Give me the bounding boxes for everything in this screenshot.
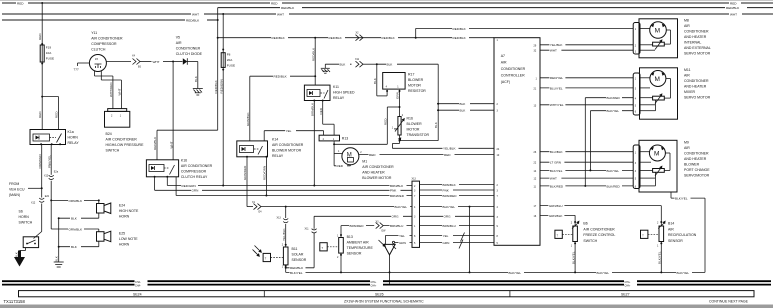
svg-text:20A: 20A	[227, 58, 233, 62]
svg-text:PNK: PNK	[390, 189, 397, 193]
horn E24 high note horn	[97, 203, 140, 219]
wire bus RED/BLK right	[218, 5, 773, 10]
svg-text:A7: A7	[501, 54, 505, 58]
svg-text:BLK/YEL: BLK/YEL	[677, 271, 690, 275]
svg-text:BLK/YEL: BLK/YEL	[550, 169, 563, 173]
svg-text:BLK: BLK	[387, 63, 394, 67]
svg-text:WHT: WHT	[550, 49, 557, 53]
svg-text:K11: K11	[333, 85, 339, 89]
svg-text:ZX1W-W-5N SYSTEM FUNCTIONAL SC: ZX1W-W-5N SYSTEM FUNCTIONAL SCHEMATIC	[344, 300, 424, 304]
svg-text:X11: X11	[305, 228, 310, 231]
clutch Y11 air conditioner compressor clutch	[74, 31, 123, 72]
svg-text:M: M	[654, 150, 659, 157]
svg-text:X13: X13	[277, 217, 282, 220]
wire BRN/RED from B13 through X3	[341, 221, 412, 233]
connector X13 sensor drop	[277, 207, 289, 247]
svg-text:SWITCH: SWITCH	[19, 221, 33, 225]
svg-text:CONDITIONER: CONDITIONER	[501, 67, 526, 71]
wire BLK branch down to R17	[373, 64, 388, 96]
svg-text:BRN/RED: BRN/RED	[390, 194, 405, 198]
svg-text:E2a: E2a	[54, 171, 59, 174]
svg-text:E24: E24	[119, 204, 125, 208]
svg-text:BLK/YEL: BLK/YEL	[597, 271, 610, 275]
svg-text:HORN: HORN	[19, 215, 30, 219]
svg-text:SWITCH: SWITCH	[106, 149, 120, 153]
svg-text:RED: RED	[444, 153, 451, 157]
wire horn feed to low note horn	[51, 227, 99, 232]
A7 right pins with wires to servos	[534, 43, 662, 218]
svg-text:YEL/BLK: YEL/BLK	[282, 228, 286, 241]
svg-text:FREEZE CONTROL: FREEZE CONTROL	[583, 233, 615, 237]
svg-text:K16: K16	[181, 159, 187, 163]
svg-text:BLK/RED: BLK/RED	[550, 184, 564, 188]
wire YEL/BLK from R16 to A7	[392, 144, 494, 151]
svg-text:HIGH NOTE: HIGH NOTE	[119, 209, 139, 213]
svg-text:WHT: WHT	[550, 177, 557, 181]
svg-text:B24: B24	[106, 132, 112, 136]
svg-text:VEH ECU: VEH ECU	[9, 188, 25, 192]
svg-text:BRN/BLU: BRN/BLU	[443, 224, 456, 228]
svg-text:F19: F19	[46, 46, 52, 50]
svg-text:PORT CHANGE: PORT CHANGE	[684, 168, 710, 172]
wire K16 to X13 pin7 BRN/RED line	[176, 177, 412, 198]
svg-text:ORN/BLK: ORN/BLK	[69, 227, 84, 231]
svg-text:AIR: AIR	[176, 41, 182, 45]
sensor B11 solar sensor	[253, 245, 307, 269]
sensor B14 air recirculation sensor	[641, 206, 697, 273]
svg-text:BRN/BLU: BRN/BLU	[390, 224, 403, 228]
svg-text:BLOWER: BLOWER	[407, 122, 423, 126]
wire RED/ORN from K14 down	[263, 157, 267, 196]
svg-text:GRN/BLU: GRN/BLU	[549, 204, 563, 208]
svg-text:ORN/BLK: ORN/BLK	[69, 199, 84, 203]
svg-text:SENSOR: SENSOR	[292, 258, 307, 262]
svg-text:BLU/BLK: BLU/BLK	[550, 150, 564, 154]
svg-text:M9: M9	[684, 140, 689, 144]
svg-text:M11: M11	[684, 68, 691, 72]
svg-text:BLK/YEL: BLK/YEL	[675, 197, 688, 201]
svg-text:MIXER: MIXER	[684, 90, 696, 94]
svg-text:M: M	[655, 27, 660, 34]
svg-text:Y11: Y11	[91, 31, 97, 35]
svg-text:CHA-: CHA-	[625, 285, 631, 288]
svg-text:HORN: HORN	[119, 215, 130, 219]
svg-text:WHT: WHT	[153, 60, 160, 64]
wire ORN/RED from K1a to X12	[38, 145, 43, 190]
svg-text:(ACF): (ACF)	[501, 80, 510, 84]
svg-text:ZX: ZX	[95, 58, 98, 61]
wire RED/BLK from jog to A7 top	[218, 36, 494, 41]
ground bus CHA thick lines	[2, 279, 771, 288]
svg-text:AIR: AIR	[684, 73, 690, 77]
ground arrow below S6	[14, 251, 25, 267]
svg-text:ORG: ORG	[444, 215, 452, 219]
svg-text:HORN: HORN	[68, 136, 79, 140]
svg-text:RED/YEL: RED/YEL	[550, 76, 564, 80]
svg-text:(MAIN): (MAIN)	[9, 193, 20, 197]
svg-text:AIR: AIR	[684, 146, 690, 150]
wire vertical RED/BLK jog from bus	[153, 8, 219, 160]
svg-text:BLK: BLK	[460, 109, 467, 113]
svg-text:X11: X11	[355, 58, 360, 61]
svg-text:FUSE: FUSE	[46, 57, 54, 61]
svg-text:HIGH/LOW PRESSURE: HIGH/LOW PRESSURE	[106, 143, 145, 147]
svg-text:M8: M8	[684, 19, 689, 23]
wire BLK ground line to R17 area	[325, 62, 351, 67]
wire YEL from K14 to R13	[264, 129, 323, 141]
svg-text:RED/ORN: RED/ORN	[263, 166, 267, 180]
svg-text:WHT: WHT	[277, 12, 284, 16]
svg-text:BRN/BLK: BRN/BLK	[443, 183, 457, 187]
svg-text:BLK: BLK	[373, 77, 377, 84]
svg-text:CLUTCH: CLUTCH	[91, 48, 106, 52]
wire K16 to X13 pin3 PNK line	[155, 177, 412, 193]
wire GRN/RED from K14 down to X1	[243, 157, 253, 207]
svg-text:COMPRESSOR: COMPRESSOR	[91, 42, 117, 46]
svg-text:YEL/BLK: YEL/BLK	[550, 43, 563, 47]
svg-text:GRN: GRN	[192, 189, 199, 193]
svg-text:CONTROLLER: CONTROLLER	[501, 74, 525, 78]
svg-text:CHA-: CHA-	[135, 285, 141, 288]
svg-text:LOW NOTE: LOW NOTE	[119, 237, 138, 241]
svg-text:BLK: BLK	[71, 217, 78, 221]
svg-text:AIR CONDITIONER: AIR CONDITIONER	[272, 143, 304, 147]
svg-text:BLK/YEL: BLK/YEL	[290, 271, 303, 275]
svg-text:AND HEATER: AND HEATER	[684, 157, 707, 161]
svg-text:SERVOMOTOR: SERVOMOTOR	[684, 173, 710, 177]
svg-text:RELAY: RELAY	[333, 96, 345, 100]
footer gray strip	[0, 305, 773, 308]
svg-text:AIR: AIR	[501, 61, 507, 65]
text FROM VEH ECU	[9, 182, 42, 197]
A7 left pin numbers	[497, 39, 500, 245]
svg-text:777: 777	[74, 68, 79, 72]
wire R17 pin1 to R16 and RED feed to R13	[334, 90, 400, 145]
controller A7 air conditioner controller box	[494, 38, 540, 246]
svg-text:YEL: YEL	[399, 234, 405, 238]
svg-text:GRN: GRN	[443, 241, 450, 245]
svg-text:RED/BLK: RED/BLK	[281, 6, 295, 10]
svg-text:BLK: BLK	[55, 255, 59, 262]
resistor R13	[319, 135, 350, 168]
svg-text:BLK/YEL: BLK/YEL	[395, 205, 408, 209]
svg-text:SERVO MOTOR: SERVO MOTOR	[684, 95, 711, 99]
top page edge	[0, 0, 773, 2]
svg-text:CONDITIONER: CONDITIONER	[684, 79, 709, 83]
svg-text:RELAY: RELAY	[272, 154, 284, 158]
svg-text:M1: M1	[362, 160, 367, 164]
svg-text:BRN/BLK: BRN/BLK	[311, 102, 315, 116]
svg-text:RED/BLK: RED/BLK	[726, 6, 740, 10]
wire RED from K11 to R13	[319, 101, 334, 136]
svg-text:10A: 10A	[46, 51, 52, 55]
footer section bar	[19, 291, 755, 297]
wire horn feed to high note horn	[51, 198, 100, 203]
wires X13 to A7 left pins	[420, 182, 495, 248]
relay K1a horn relay	[30, 130, 79, 146]
svg-text:BLK/RED: BLK/RED	[607, 184, 621, 188]
horn E25 low note horn	[97, 231, 139, 246]
svg-text:FUSE: FUSE	[227, 64, 235, 68]
svg-text:RELAY: RELAY	[68, 141, 80, 145]
svg-text:ORN/RED: ORN/RED	[38, 153, 42, 168]
wire branch up to servo M8 feed	[416, 26, 634, 38]
svg-text:WHT: WHT	[169, 141, 173, 148]
svg-text:RED/BLK: RED/BLK	[382, 36, 396, 40]
svg-text:SENSOR: SENSOR	[347, 252, 362, 256]
connector X2 on RED/BLK wire	[356, 32, 364, 41]
relay K11 high speed relay	[304, 85, 355, 102]
svg-text:AND HEATER: AND HEATER	[684, 84, 707, 88]
svg-text:RED/BLK: RED/BLK	[186, 18, 200, 22]
svg-text:HORN: HORN	[119, 243, 130, 247]
svg-text:X13: X13	[412, 178, 417, 181]
svg-text:GRN/BLK: GRN/BLK	[246, 111, 250, 126]
wire BLK corner down to A7 BLK pins	[434, 64, 494, 140]
svg-text:YEL: YEL	[286, 129, 292, 133]
svg-text:BLOWER: BLOWER	[684, 162, 700, 166]
svg-text:X12: X12	[44, 175, 49, 178]
connector X13 block	[412, 178, 420, 248]
svg-text:COMPRESSOR: COMPRESSOR	[181, 170, 207, 174]
svg-text:K14: K14	[272, 138, 278, 142]
sensor B13 ambient air temperature sensor	[320, 226, 374, 273]
svg-text:HIGH SPEED: HIGH SPEED	[333, 91, 355, 95]
svg-text:TEMPERATURE: TEMPERATURE	[347, 246, 374, 250]
wire BLK from E25	[55, 241, 99, 262]
svg-text:CONDITIONER: CONDITIONER	[684, 151, 709, 155]
wire bus RED/BLK left	[2, 18, 218, 23]
svg-text:RED/BLK: RED/BLK	[274, 75, 288, 79]
svg-text:AIR CONDITIONER: AIR CONDITIONER	[91, 37, 123, 41]
svg-text:YEL: YEL	[443, 234, 449, 238]
svg-text:RED/BLK: RED/BLK	[311, 47, 315, 61]
wire RED pair into horn relay	[38, 97, 58, 130]
wire WHT from X4 node down to K16	[169, 62, 173, 160]
svg-text:AIR CONDITIONER: AIR CONDITIONER	[181, 164, 213, 168]
svg-text:BLOWER MOTOR: BLOWER MOTOR	[272, 149, 302, 153]
ground earth below diode	[193, 89, 203, 96]
svg-text:INTERNAL: INTERNAL	[684, 41, 701, 45]
svg-text:CONDITIONER: CONDITIONER	[176, 47, 201, 51]
svg-text:CLUTCH RELAY: CLUTCH RELAY	[181, 175, 208, 179]
svg-text:V5: V5	[176, 36, 180, 40]
svg-text:CONTINUE NEXT PAGE: CONTINUE NEXT PAGE	[709, 300, 749, 304]
connector X1 on sensor feed wire	[252, 201, 412, 214]
svg-text:K1a: K1a	[68, 130, 74, 134]
svg-text:AIR CONDITIONER: AIR CONDITIONER	[106, 138, 138, 142]
svg-text:RED: RED	[55, 111, 59, 118]
svg-text:RED: RED	[730, 2, 737, 6]
ground chassis below horns	[54, 253, 64, 267]
svg-text:RED: RED	[319, 107, 323, 114]
svg-text:CONDITIONER: CONDITIONER	[684, 30, 709, 34]
connector X12 lower on switch feed	[31, 188, 50, 231]
svg-text:BLK/YEL: BLK/YEL	[443, 205, 456, 209]
sensor sunlight photo element triangle	[379, 233, 413, 284]
svg-text:RED/BLK: RED/BLK	[453, 27, 467, 31]
svg-text:GRN/BLK: GRN/BLK	[549, 214, 564, 218]
svg-text:B14: B14	[668, 222, 674, 226]
wire PNK/YEL from K1a	[47, 145, 51, 175]
wire RED/BLK branch to K14 coil	[246, 74, 315, 141]
svg-text:WHT: WHT	[192, 12, 199, 16]
svg-text:BRN/BLK: BRN/BLK	[390, 184, 404, 188]
svg-text:BLU/YEL: BLU/YEL	[550, 86, 563, 90]
svg-text:SENSOR: SENSOR	[668, 239, 683, 243]
svg-text:WHT/RED: WHT/RED	[109, 82, 113, 97]
wire BLK/YEL bottom bus	[286, 270, 705, 275]
svg-text:AND HEATER: AND HEATER	[362, 171, 385, 175]
connector X11 vertical to ORG wire	[305, 214, 413, 268]
svg-text:AIR CONDITIONER: AIR CONDITIONER	[362, 165, 394, 169]
svg-text:BLK/YEL: BLK/YEL	[658, 251, 662, 264]
connector X4	[132, 55, 183, 69]
diode V5 air conditioner clutch diode	[176, 36, 203, 89]
svg-text:FROM: FROM	[9, 182, 19, 186]
svg-text:ORG: ORG	[392, 215, 400, 219]
svg-text:RED/GRN: RED/GRN	[219, 79, 223, 93]
svg-text:B13: B13	[347, 235, 353, 239]
resistor R17 blower motor resistor	[383, 73, 427, 94]
connector X11 on BLK wire	[355, 58, 438, 67]
wire RED/BLK from B11 to X11 vertical	[285, 265, 314, 273]
wire BLK/YEL riser to M11	[590, 109, 633, 171]
svg-text:S6: S6	[19, 210, 23, 214]
svg-text:PNK/YEL: PNK/YEL	[47, 155, 51, 168]
svg-text:RED: RED	[271, 2, 278, 6]
wire BRN/BLK from K11 to X13 pin line	[311, 101, 316, 187]
svg-text:MOTOR: MOTOR	[408, 84, 421, 88]
svg-text:SE24: SE24	[133, 293, 142, 297]
wire K16 to X13 pin2 BRN/BLK line	[167, 177, 412, 188]
svg-text:RED: RED	[384, 118, 388, 125]
svg-text:SOLAR: SOLAR	[292, 253, 304, 257]
svg-text:RED: RED	[17, 2, 24, 6]
svg-text:PNK: PNK	[443, 188, 450, 192]
servo M11 mixer servo motor	[633, 68, 710, 119]
svg-text:R17: R17	[408, 73, 414, 77]
svg-text:RED: RED	[337, 164, 344, 168]
svg-text:AIR: AIR	[684, 24, 690, 28]
connector X12 upper on horn feed	[44, 171, 59, 230]
svg-text:E2b: E2b	[45, 195, 50, 198]
svg-text:AIR: AIR	[668, 227, 674, 231]
node junction on RED bus	[41, 2, 43, 4]
svg-text:RED: RED	[38, 33, 42, 40]
svg-text:BLK/YEL: BLK/YEL	[607, 169, 620, 173]
svg-text:SERVO MOTOR: SERVO MOTOR	[684, 52, 711, 56]
svg-text:GRN/RED: GRN/RED	[243, 165, 247, 180]
svg-text:AIR CONDITIONER: AIR CONDITIONER	[583, 227, 615, 231]
svg-text:RED/BLK: RED/BLK	[272, 36, 286, 40]
svg-text:BLK: BLK	[15, 251, 19, 258]
relay K16 air conditioner compressor clutch relay	[146, 159, 212, 180]
svg-text:BLOWER MOTOR: BLOWER MOTOR	[362, 176, 392, 180]
switch B6 air conditioner freeze control switch	[555, 215, 615, 272]
servo M8 internal/external servo motor	[633, 19, 711, 58]
svg-text:SE26: SE26	[375, 293, 384, 297]
svg-text:R16: R16	[407, 117, 413, 121]
svg-text:WHT: WHT	[730, 12, 737, 16]
svg-text:RED/BLK: RED/BLK	[290, 266, 304, 270]
wire BLK from E24	[58, 213, 99, 253]
svg-text:AND EXTERNAL: AND EXTERNAL	[684, 46, 711, 50]
switch S6 horn switch	[15, 210, 42, 259]
svg-text:TRANSISTOR: TRANSISTOR	[407, 133, 430, 137]
switch B24 air conditioner high/low pressure switch	[105, 109, 145, 153]
wire bus WHT	[2, 12, 773, 17]
relay K14 air conditioner blower motor relay	[237, 138, 304, 159]
svg-text:BLK/RED: BLK/RED	[607, 96, 621, 100]
svg-text:M: M	[655, 76, 660, 83]
svg-text:LT GRN: LT GRN	[550, 161, 561, 165]
svg-text:BLK/YEL: BLK/YEL	[571, 251, 575, 264]
wire bus RED top	[2, 1, 773, 6]
svg-text:RED/GRN: RED/GRN	[182, 184, 196, 188]
svg-text:TX1173158: TX1173158	[4, 299, 26, 304]
svg-text:RED/BLK: RED/BLK	[453, 36, 467, 40]
svg-text:BLK: BLK	[71, 245, 78, 249]
svg-text:F8: F8	[227, 53, 231, 57]
svg-text:BRN/RED: BRN/RED	[443, 194, 458, 198]
svg-text:RED: RED	[369, 153, 376, 157]
svg-text:BLK: BLK	[194, 75, 198, 82]
svg-text:BLK: BLK	[340, 63, 347, 67]
wire vertical WHT bus drop with fuse F8	[222, 13, 224, 53]
svg-text:RED/BLK: RED/BLK	[153, 136, 157, 150]
fuse F19	[40, 45, 54, 65]
motor M1 blower motor	[338, 148, 494, 180]
svg-text:B6: B6	[583, 222, 587, 226]
svg-text:SWITCH: SWITCH	[583, 239, 597, 243]
fuse F8	[219, 53, 235, 186]
wire fuse to split node	[41, 62, 58, 98]
svg-text:BLK/YEL: BLK/YEL	[509, 271, 522, 275]
wire BLK/YEL drop to bottom bus	[469, 207, 471, 273]
svg-text:RED: RED	[38, 111, 42, 118]
svg-text:R13: R13	[342, 137, 348, 141]
svg-text:RED/BLK: RED/BLK	[329, 36, 343, 40]
svg-text:RED/BLK: RED/BLK	[214, 79, 218, 93]
svg-text:YEL/BLK: YEL/BLK	[443, 147, 456, 151]
svg-text:WHT: WHT	[118, 88, 122, 95]
svg-text:GRN: GRN	[399, 241, 406, 245]
svg-text:X12: X12	[31, 202, 36, 205]
svg-text:RECIRCULATION: RECIRCULATION	[668, 233, 697, 237]
svg-text:WHT/YEL: WHT/YEL	[550, 103, 564, 107]
svg-text:BLK: BLK	[460, 102, 467, 106]
svg-text:AMBIENT AIR: AMBIENT AIR	[347, 241, 370, 245]
ground earth on BLK wire	[321, 64, 330, 73]
svg-text:E25: E25	[119, 232, 125, 236]
svg-text:AND HEATER: AND HEATER	[684, 35, 707, 39]
wire clutch down to pressure switch	[95, 71, 122, 109]
wire vertical RED/BLK center drop to K11	[311, 38, 316, 85]
svg-text:CLUTCH DIODE: CLUTCH DIODE	[176, 52, 203, 56]
svg-text:BRN/RED: BRN/RED	[350, 224, 365, 228]
svg-text:GRN: GRN	[396, 92, 400, 99]
servo M9 blower port change servomotor	[633, 140, 710, 192]
svg-text:BLK: BLK	[434, 121, 438, 128]
svg-text:CHA-: CHA-	[371, 285, 377, 288]
svg-text:RESISTOR: RESISTOR	[408, 89, 426, 93]
transistor R16 blower motor transistor	[392, 114, 438, 144]
wire BLK/RED riser to M11	[585, 96, 633, 186]
wire vertical from RED bus to fuse F19	[38, 3, 43, 45]
wire clutch to X4	[106, 61, 131, 63]
svg-text:B11: B11	[292, 247, 298, 251]
